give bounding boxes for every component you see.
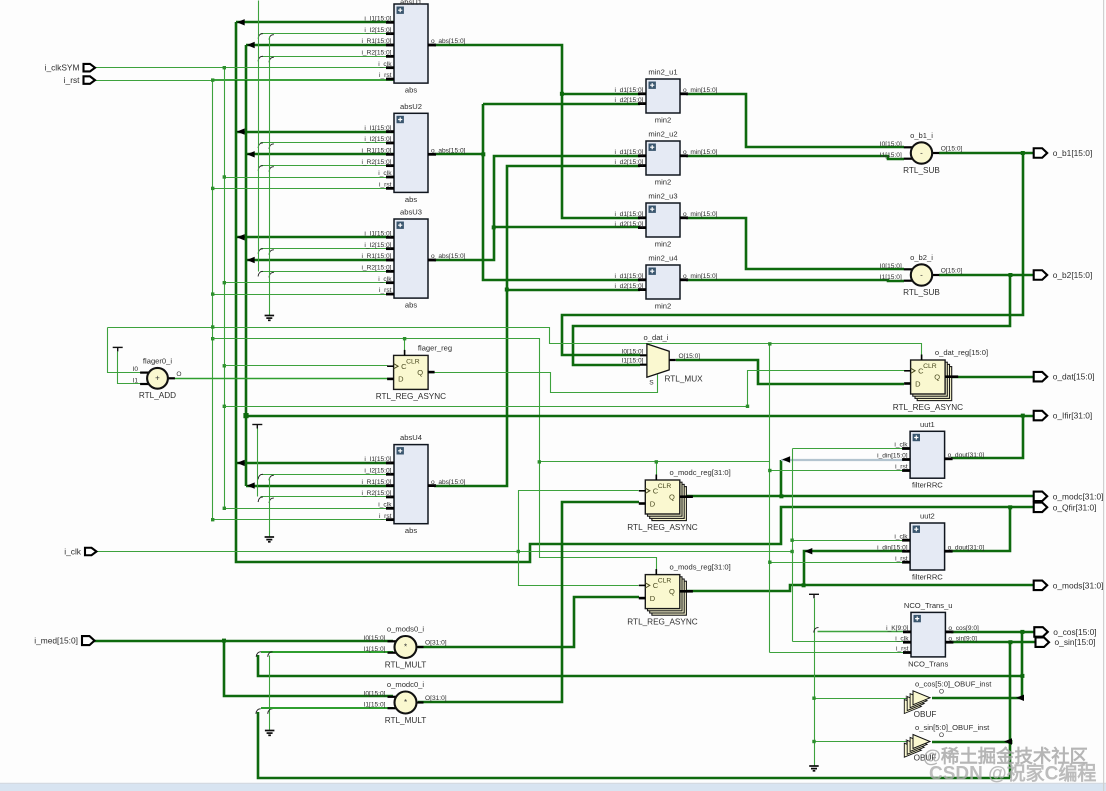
svg-text:flager_reg: flager_reg	[418, 343, 452, 352]
wire o_Ifir feedback bus to abs i_R1	[245, 45, 248, 486]
module min2_u3 (min2)	[615, 192, 718, 249]
wire absU2.i_R1	[246, 153, 394, 156]
svg-text:o_mods0_i: o_mods0_i	[387, 625, 424, 634]
svg-text:o_cos[9:0]: o_cos[9:0]	[948, 625, 979, 632]
wire o_Ifir bus	[246, 415, 1023, 418]
svg-text:NCO_Trans_u: NCO_Trans_u	[904, 601, 953, 610]
svg-text:I0[15:0]: I0[15:0]	[880, 141, 902, 148]
wire o_b2 to o_dat_i.I1	[573, 275, 1010, 365]
svg-text:o_dat_reg[15:0]: o_dat_reg[15:0]	[935, 348, 988, 357]
svg-text:i_I2[15:0]: i_I2[15:0]	[364, 242, 391, 249]
svg-text:i_clk: i_clk	[895, 635, 909, 642]
register o_dat_reg	[893, 348, 988, 412]
wire to NCO.i_K	[818, 631, 905, 633]
svg-text:i_I1[15:0]: i_I1[15:0]	[364, 16, 391, 23]
input port i_rst	[84, 76, 96, 84]
wire o_Qfir feedback bus to abs i_I1	[236, 22, 1010, 562]
wire absU2 out	[434, 153, 483, 156]
wire clk vertical right	[792, 449, 794, 642]
svg-text:o_modc[31:0]: o_modc[31:0]	[1053, 491, 1104, 501]
wire flager_reg.Q to o_dat_i.S	[429, 373, 658, 393]
svg-text:abs: abs	[405, 301, 417, 310]
arrow OBUF cos out	[1016, 695, 1024, 701]
svg-text:i_K[9:0]: i_K[9:0]	[886, 625, 909, 632]
svg-text:CLR: CLR	[923, 363, 937, 370]
svg-text:-: -	[920, 270, 923, 279]
wire const to flager0_i.I1	[118, 352, 141, 384]
wire absU2.i_R2	[261, 165, 395, 167]
svg-text:o_cos[5:0]_OBUF_inst: o_cos[5:0]_OBUF_inst	[915, 679, 992, 688]
wire NCO.o_cos to port o_cos	[951, 631, 1034, 634]
svg-text:o_abs[15:0]: o_abs[15:0]	[431, 479, 466, 486]
svg-text:RTL_MULT: RTL_MULT	[385, 716, 427, 725]
wire absU4.i_R2	[261, 496, 395, 498]
wire flager_reg.CLR	[404, 339, 406, 355]
wire absU1.i_clk	[225, 67, 395, 69]
multiplier o_mods0_i RTL_MULT	[364, 625, 447, 670]
svg-text:-: -	[920, 148, 923, 157]
wire absU4.i_I1	[236, 462, 394, 465]
wire absU2.i_I2	[261, 142, 395, 144]
wire o_cos bus to o_mods0_i.I1	[258, 655, 1022, 676]
wire o_sin bus to o_modc0_i.I1	[258, 712, 1010, 778]
wire rst line to flager0_i.I0	[108, 328, 141, 373]
svg-text:I1[15:0]: I1[15:0]	[880, 152, 902, 159]
const tie for flager0_i.I1	[113, 347, 123, 351]
svg-text:RTL_MULT: RTL_MULT	[385, 661, 427, 670]
svg-text:o_b1_i: o_b1_i	[910, 131, 933, 140]
svg-text:C: C	[918, 366, 924, 375]
output port o_Qfir[31:0]	[1034, 503, 1048, 513]
svg-text:o_dout[31:0]: o_dout[31:0]	[948, 452, 985, 459]
svg-text:absU1: absU1	[400, 0, 422, 7]
wire absU1.i_I1	[236, 21, 394, 24]
svg-text:RTL_REG_ASYNC: RTL_REG_ASYNC	[893, 403, 963, 412]
svg-text:o_b1[15:0]: o_b1[15:0]	[1053, 148, 1093, 158]
svg-text:i_I1[15:0]: i_I1[15:0]	[364, 231, 391, 238]
wire o_mods0_i.I1 bus	[261, 651, 393, 653]
wire absU4.i_R1	[246, 485, 394, 488]
svg-text:o_mods_reg[31:0]: o_mods_reg[31:0]	[670, 563, 731, 572]
svg-text:o_cos[15:0]: o_cos[15:0]	[1053, 627, 1096, 637]
register o_modc_reg	[627, 468, 730, 532]
svg-text:RTL_REG_ASYNC: RTL_REG_ASYNC	[376, 392, 446, 401]
subtractor o_b1_i RTL_SUB	[880, 131, 963, 175]
svg-text:RTL_REG_ASYNC: RTL_REG_ASYNC	[627, 618, 697, 627]
wire OBUF cos output	[932, 697, 1022, 700]
svg-text:i_d2[15:0]: i_d2[15:0]	[615, 159, 644, 166]
wire clk to o_mods_reg.C	[519, 552, 639, 586]
wire clk to uut1.i_clk	[793, 448, 905, 450]
wire absU1.i_R1	[246, 44, 394, 47]
wire o_mods_reg.Q to port o_mods	[680, 585, 1034, 591]
svg-text:S: S	[649, 379, 654, 386]
wire i_clkSYM vertical spine	[224, 68, 226, 509]
svg-text:i_rst: i_rst	[895, 464, 908, 471]
wire o_Qfir to port	[1010, 506, 1034, 509]
svg-text:Q: Q	[417, 368, 423, 377]
module NCO_Trans_u (NCO_Trans)	[886, 601, 979, 669]
wire absU4 out to min2_u2.i_d2	[434, 166, 640, 486]
svg-text:i_med[15:0]: i_med[15:0]	[34, 636, 78, 646]
svg-text:absU2: absU2	[400, 102, 422, 111]
svg-text:i_I1[15:0]: i_I1[15:0]	[364, 456, 391, 463]
svg-text:i_clk: i_clk	[378, 276, 392, 283]
svg-text:i_R1[15:0]: i_R1[15:0]	[361, 479, 391, 486]
svg-text:i_R1[15:0]: i_R1[15:0]	[361, 148, 391, 155]
wire uut1.o_dout to o_Ifir	[951, 416, 1034, 458]
svg-text:o_min[15:0]: o_min[15:0]	[683, 211, 718, 218]
wire rst to uut1.i_rst	[770, 470, 905, 472]
output port o_cos[15:0]	[1034, 627, 1048, 637]
svg-text:filterRRC: filterRRC	[912, 481, 943, 490]
wire o_b2_i.O to port o_b2	[939, 274, 1034, 277]
svg-text:i_R2[15:0]: i_R2[15:0]	[361, 159, 391, 166]
svg-text:i_R1[15:0]: i_R1[15:0]	[361, 253, 391, 260]
wire i_med branch to o_modc0_i.I0	[224, 641, 393, 696]
svg-text:RTL_SUB: RTL_SUB	[903, 288, 940, 297]
wire NCO.o_sin to port o_sin	[951, 641, 1035, 644]
wire o_mods branch to uut2.i_din	[804, 551, 904, 585]
wire min2_u3 out to o_b2_i.I0	[686, 218, 904, 269]
svg-text:O: O	[176, 371, 181, 378]
bottom scrollbar strip	[0, 782, 1106, 785]
svg-text:absU3: absU3	[400, 208, 422, 217]
svg-text:i_rst: i_rst	[379, 182, 392, 189]
wire o_cos vertical	[1021, 632, 1024, 698]
output port o_mods[31:0]	[1034, 581, 1048, 591]
wire o_modc0_i.I1 bus	[261, 707, 393, 709]
wire absU2 vertical to min2_u4.i_d1	[483, 104, 640, 280]
wire absU4.i_clk	[225, 508, 395, 510]
svg-text:D: D	[915, 379, 921, 388]
output port o_sin[15:0]	[1036, 637, 1050, 647]
svg-text:I0: I0	[133, 366, 139, 373]
svg-text:i_d2[15:0]: i_d2[15:0]	[615, 283, 644, 290]
wire o_modc0_i.O to o_modc_reg.D	[418, 502, 639, 702]
wire const bus for absU4	[257, 429, 259, 497]
svg-text:i_clk: i_clk	[894, 442, 908, 449]
wire o_sin vertical	[1009, 642, 1012, 778]
svg-text:i_clk: i_clk	[378, 170, 392, 177]
wire absU2 to min2_u1.i_d2	[483, 103, 640, 106]
wire rst to o_mods_reg.CLR	[540, 462, 657, 575]
module min2_u4 (min2)	[615, 254, 718, 311]
svg-text:min2: min2	[655, 240, 671, 249]
wire absU3.i_I2	[261, 248, 395, 250]
wire o_modc branch up for uut1.i_din	[780, 460, 783, 496]
svg-text:i_I2[15:0]: i_I2[15:0]	[364, 136, 391, 143]
module min2_u1 (min2)	[615, 68, 718, 125]
svg-text:o_Ifir[31:0]: o_Ifir[31:0]	[1053, 411, 1093, 421]
output port o_b1[15:0]	[1034, 148, 1048, 158]
wire o_modc_reg.CLR	[656, 462, 658, 480]
input port i_clkSYM	[84, 64, 96, 71]
svg-text:i_R2[15:0]: i_R2[15:0]	[361, 50, 391, 57]
output port o_dat[15:0]	[1034, 372, 1048, 382]
svg-text:I0[15:0]: I0[15:0]	[622, 348, 644, 355]
arrow into uut2.i_din	[804, 548, 812, 554]
wire flager0_i.O to flager_reg.D	[175, 378, 388, 380]
svg-text:i_d1[15:0]: i_d1[15:0]	[615, 211, 644, 218]
svg-text:O[31:0]: O[31:0]	[425, 695, 447, 702]
svg-text:I0[15:0]: I0[15:0]	[364, 635, 386, 642]
svg-text:I1: I1	[133, 378, 139, 385]
svg-text:min2_u4: min2_u4	[648, 254, 677, 263]
svg-text:o_min[15:0]: o_min[15:0]	[683, 87, 718, 94]
svg-text:min2: min2	[655, 116, 671, 125]
svg-text:i_d2[15:0]: i_d2[15:0]	[615, 97, 644, 104]
module absU3 (abs)	[361, 208, 465, 310]
wire absU1.i_I2	[261, 33, 395, 35]
svg-text:i_rst: i_rst	[895, 555, 908, 562]
svg-text:i_R2[15:0]: i_R2[15:0]	[361, 490, 391, 497]
ground below absU4	[265, 537, 275, 542]
svg-text:i_d1[15:0]: i_d1[15:0]	[615, 273, 644, 280]
svg-text:i_rst: i_rst	[379, 287, 392, 294]
wire absU1.i_R2	[261, 56, 395, 58]
register flager_reg	[376, 343, 452, 401]
wire to OBUF sin input	[815, 741, 909, 743]
svg-text:CLR: CLR	[406, 358, 420, 365]
svg-text:abs: abs	[405, 526, 417, 535]
svg-text:RTL_ADD: RTL_ADD	[139, 391, 176, 400]
wire NCO i_K const/gnd vertical	[814, 599, 816, 767]
ground for mult I1 low bits	[265, 731, 275, 736]
svg-text:o_dat_i: o_dat_i	[644, 333, 669, 342]
svg-text:flager0_i: flager0_i	[143, 356, 172, 365]
svg-text:D: D	[650, 499, 656, 508]
wire absU3.i_rst	[213, 294, 395, 296]
svg-text:D: D	[650, 594, 656, 603]
svg-text:o_abs[15:0]: o_abs[15:0]	[431, 38, 466, 45]
mux o_dat_i RTL_MUX	[622, 333, 704, 386]
svg-text:o_abs[15:0]: o_abs[15:0]	[431, 148, 466, 155]
svg-text:i_rst: i_rst	[379, 513, 392, 520]
ground below absU3	[265, 316, 275, 321]
wire branch to min2_u1.i_d1	[562, 93, 640, 96]
svg-text:o_sin[15:0]: o_sin[15:0]	[1055, 637, 1096, 647]
register o_mods_reg	[627, 563, 730, 627]
const tie for NCO i_K high bits	[809, 594, 819, 598]
svg-text:i_clkSYM: i_clkSYM	[45, 63, 80, 73]
wire clk to NCO.i_clk	[793, 641, 905, 643]
wire branch to min2_u4.i_d2	[507, 289, 640, 292]
svg-text:absU4: absU4	[400, 433, 422, 442]
svg-text:o_b2_i: o_b2_i	[910, 253, 933, 262]
svg-text:O[15:0]: O[15:0]	[679, 353, 701, 360]
wire i_clkSYM to flager_reg.C	[225, 365, 388, 367]
svg-text:O[15:0]: O[15:0]	[941, 146, 963, 153]
wire uut1.i_din (highlighted pale)	[781, 459, 904, 461]
output port o_modc[31:0]	[1034, 492, 1048, 502]
adder flager0_i RTL_ADD	[133, 356, 182, 400]
wire absU3.i_clk	[225, 282, 395, 284]
svg-text:o_sin[5:0]_OBUF_inst: o_sin[5:0]_OBUF_inst	[915, 723, 990, 732]
wire min2_u4 out to o_b2_i.I1	[686, 280, 904, 281]
wire i_rst vertical spine	[212, 81, 214, 520]
buffer o_cos OBUF	[904, 679, 992, 719]
svg-text:o_b2[15:0]: o_b2[15:0]	[1053, 270, 1093, 280]
wire o_dat_i.O to o_dat_reg.D	[676, 360, 904, 384]
svg-text:i_clk: i_clk	[378, 61, 392, 68]
svg-text:RTL_MUX: RTL_MUX	[665, 375, 704, 384]
wire absU2.i_clk	[225, 177, 395, 179]
wire branch to min2_u3.i_d2	[494, 226, 640, 229]
svg-text:o_dout[31:0]: o_dout[31:0]	[948, 544, 985, 551]
arrow into uut1.i_din	[782, 456, 790, 462]
multiplier o_modc0_i RTL_MULT	[364, 680, 447, 725]
wire absU2.i_I1	[236, 131, 394, 134]
wire o_mods0_i.O to o_mods_reg.D	[418, 597, 639, 647]
module absU1 (abs)	[361, 0, 465, 95]
wire i_clkSYM to absU1.i_clk	[96, 67, 395, 69]
svg-text:o_modc_reg[31:0]: o_modc_reg[31:0]	[670, 468, 731, 477]
svg-text:C: C	[401, 362, 407, 371]
svg-text:+: +	[155, 374, 160, 383]
wire absU1 out to min2_u1/u3.i_d1	[434, 45, 640, 218]
svg-text:i_clk: i_clk	[378, 502, 392, 509]
subtractor o_b2_i RTL_SUB	[880, 253, 963, 297]
output port o_b2[15:0]	[1034, 270, 1048, 280]
svg-text:I1[15:0]: I1[15:0]	[364, 702, 386, 709]
wire clk to o_modc_reg.C	[519, 491, 639, 552]
svg-text:i_I2[15:0]: i_I2[15:0]	[364, 468, 391, 475]
svg-text:i_d1[15:0]: i_d1[15:0]	[615, 87, 644, 94]
svg-text:abs: abs	[405, 86, 417, 95]
svg-text:i_rst: i_rst	[896, 646, 909, 653]
wire rst line to reg CLRs	[213, 339, 770, 462]
output port o_Ifir[31:0]	[1034, 411, 1048, 421]
wire absU3 out to min2_u2.i_d1	[434, 156, 640, 260]
wire absU2.i_rst	[213, 188, 395, 190]
svg-text:Q: Q	[669, 493, 675, 502]
svg-text:C: C	[653, 581, 659, 590]
svg-text:i_R1[15:0]: i_R1[15:0]	[361, 38, 391, 45]
svg-text:i_I2[15:0]: i_I2[15:0]	[364, 27, 391, 34]
svg-text:uut2: uut2	[920, 512, 935, 521]
svg-text:filterRRC: filterRRC	[912, 573, 943, 582]
wire gnd bus upper	[269, 37, 271, 316]
svg-text:o_min[15:0]: o_min[15:0]	[683, 149, 718, 156]
wire absU1.i_rst	[213, 79, 395, 81]
svg-text:C: C	[653, 486, 659, 495]
wire gnd bits for mult I1	[269, 656, 271, 731]
svg-text:i_clk: i_clk	[894, 533, 908, 540]
svg-text:min2_u3: min2_u3	[648, 192, 677, 201]
module min2_u2 (min2)	[615, 130, 718, 187]
svg-text:I: I	[905, 739, 907, 746]
wire absU4.i_I2	[261, 474, 395, 476]
svg-text:*: *	[404, 642, 407, 651]
svg-text:i_rst: i_rst	[379, 72, 392, 79]
svg-text:Q: Q	[669, 587, 675, 596]
wire o_dat_reg.Q to port o_dat	[951, 376, 1034, 379]
svg-text:I1[15:0]: I1[15:0]	[622, 358, 644, 365]
wire to OBUF cos input	[815, 698, 909, 700]
wire absU3.i_I1	[236, 236, 394, 239]
const tie for absU4	[252, 425, 262, 429]
svg-text:o_abs[15:0]: o_abs[15:0]	[431, 253, 466, 260]
wire rst vertical right	[769, 344, 771, 653]
svg-text:i_I1[15:0]: i_I1[15:0]	[364, 125, 391, 132]
svg-text:O: O	[939, 688, 944, 695]
svg-text:CSDN @祝家C编程: CSDN @祝家C编程	[929, 762, 1096, 785]
svg-text:i_clk: i_clk	[64, 547, 82, 557]
svg-text:min2: min2	[655, 302, 671, 311]
wire rst to NCO.i_rst	[770, 652, 905, 654]
module uut1 (filterRRC)	[877, 420, 984, 490]
svg-text:I: I	[905, 695, 907, 702]
input port i_clk	[85, 548, 97, 556]
module absU4 (abs)	[361, 433, 465, 535]
wire clk to uut2.i_clk	[793, 540, 905, 542]
svg-text:abs: abs	[405, 195, 417, 204]
svg-text:O: O	[939, 732, 944, 739]
wire absU3.i_R1	[246, 259, 394, 262]
svg-text:RTL_SUB: RTL_SUB	[903, 166, 940, 175]
svg-text:I0[15:0]: I0[15:0]	[880, 263, 902, 270]
wire rst to uut2.i_rst	[770, 562, 905, 564]
module absU2 (abs)	[361, 102, 465, 204]
svg-text:o_mods[31:0]: o_mods[31:0]	[1053, 580, 1104, 590]
wire const bus for abs i_I2 upper	[258, 1, 260, 272]
wire rst line to o_dat_reg.CLR	[108, 328, 922, 360]
svg-text:o_sin[9:0]: o_sin[9:0]	[948, 635, 977, 642]
svg-text:i_rst: i_rst	[64, 75, 80, 85]
svg-text:uut1: uut1	[920, 420, 935, 429]
wire gnd bus lower	[269, 478, 271, 538]
wire uut2.o_dout to o_Qfir	[951, 507, 1010, 551]
svg-text:o_modc0_i: o_modc0_i	[387, 680, 424, 689]
wire OBUF sin output	[932, 741, 1010, 744]
svg-text:O[15:0]: O[15:0]	[941, 268, 963, 275]
svg-text:CLR: CLR	[658, 578, 672, 585]
svg-text:i_d1[15:0]: i_d1[15:0]	[615, 149, 644, 156]
svg-text:min2: min2	[655, 178, 671, 187]
wire i_rst to absU1.i_rst	[96, 80, 395, 82]
wire o_b1 to o_dat_i.I0	[562, 153, 1023, 355]
arrow OBUF sin out	[1004, 738, 1012, 744]
input port i_med[15:0]	[82, 636, 95, 645]
svg-text:RTL_REG_ASYNC: RTL_REG_ASYNC	[627, 523, 697, 532]
svg-text:O[31:0]: O[31:0]	[425, 640, 447, 647]
svg-text:o_Qfir[31:0]: o_Qfir[31:0]	[1053, 502, 1097, 512]
svg-text:i_d2[15:0]: i_d2[15:0]	[615, 221, 644, 228]
wire o_b1_i.O to port o_b1	[939, 152, 1034, 155]
wire i_clk main line	[98, 551, 793, 553]
wire i_med to o_mods0_i.I0	[94, 640, 393, 643]
svg-text:NCO_Trans: NCO_Trans	[908, 659, 948, 668]
svg-text:I1[15:0]: I1[15:0]	[364, 646, 386, 653]
svg-text:CLR: CLR	[658, 483, 672, 490]
svg-text:o_dat[15:0]: o_dat[15:0]	[1053, 372, 1095, 382]
svg-text:i_R2[15:0]: i_R2[15:0]	[361, 265, 391, 272]
svg-text:min2_u1: min2_u1	[648, 68, 677, 77]
ground for NCO i_K	[809, 766, 819, 771]
module uut2 (filterRRC)	[877, 512, 984, 582]
svg-text:i_din[15:0]: i_din[15:0]	[877, 544, 908, 551]
svg-text:OBUF: OBUF	[914, 710, 937, 719]
svg-text:D: D	[398, 375, 404, 384]
svg-text:Q: Q	[934, 373, 940, 382]
svg-text:I1[15:0]: I1[15:0]	[880, 274, 902, 281]
wire absU4.i_rst	[213, 519, 395, 521]
buffer o_sin OBUF	[904, 723, 990, 763]
wire o_modc_reg.Q to port o_modc	[680, 495, 1034, 498]
wire min2_u2 out to o_b1_i.I1	[686, 156, 904, 159]
svg-text:o_min[15:0]: o_min[15:0]	[683, 273, 718, 280]
